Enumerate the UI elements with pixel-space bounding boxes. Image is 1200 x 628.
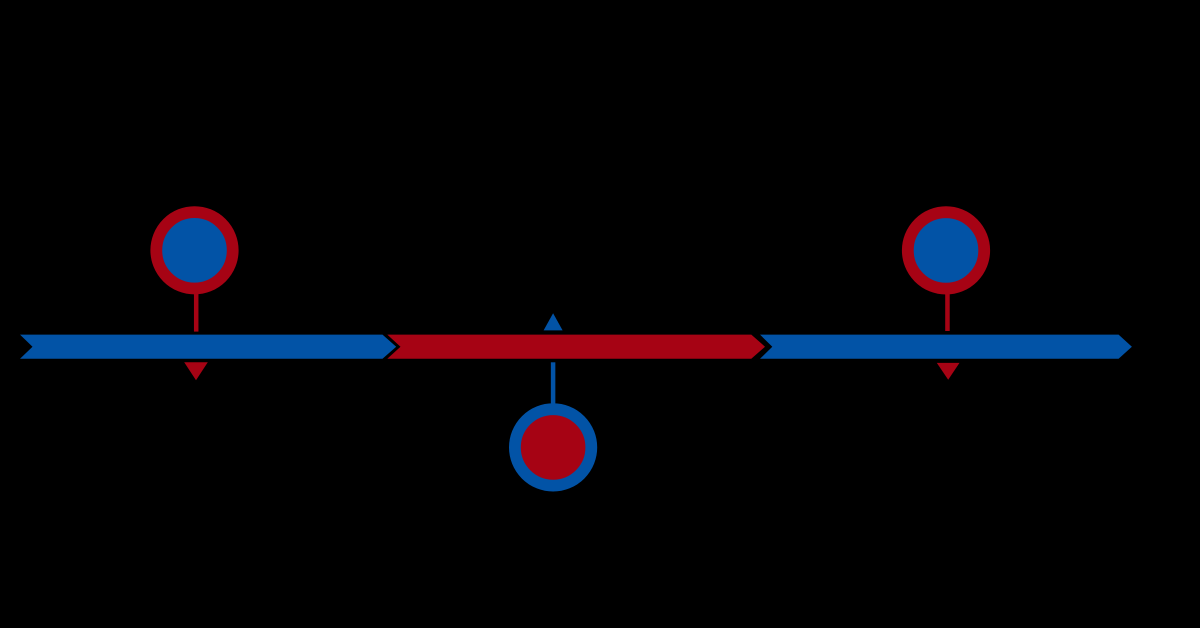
center marker up-arrow (blue triangle above band) — [544, 313, 563, 330]
timeline segment 2 (red chevron arrow) — [387, 335, 765, 359]
center marker circle (blue ring, red fill) — [515, 409, 591, 485]
timeline segment 3 (blue chevron arrow) — [760, 335, 1132, 359]
timeline segment 1 (blue chevron arrow) — [20, 335, 396, 359]
right marker stem (red) — [945, 292, 950, 331]
left marker down-arrow (red triangle below band) — [184, 362, 208, 380]
right marker down-arrow (red triangle below band) — [937, 363, 960, 380]
left marker stem (red) — [194, 292, 199, 332]
center marker stem (blue) — [551, 362, 556, 405]
right marker circle (red ring, blue fill) — [908, 212, 984, 288]
left marker circle (red ring, blue fill) — [156, 212, 232, 288]
